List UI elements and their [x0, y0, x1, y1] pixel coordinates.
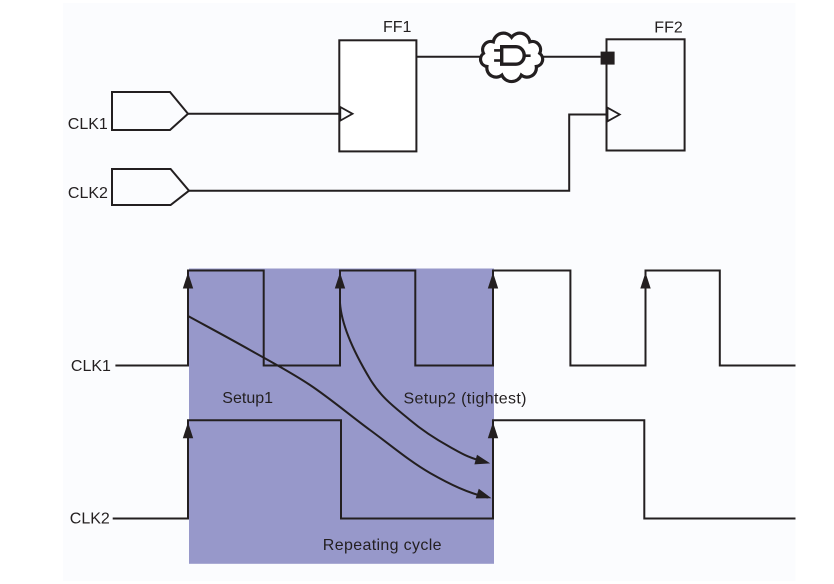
CLK2 waveform	[113, 420, 796, 518]
CLK2 rising edge arrow 2	[488, 422, 498, 438]
setup2 timing arc	[340, 303, 487, 463]
setup1 timing arc	[188, 316, 488, 498]
setup1 arrowhead	[476, 489, 493, 503]
CLK1 rising edge arrow 1	[183, 273, 193, 289]
CLK1 rising edge arrow 3	[488, 273, 498, 289]
FF2 clock pin triangle	[608, 108, 620, 122]
svg-text:FF2: FF2	[654, 20, 683, 37]
svg-text:CLK2: CLK2	[68, 185, 108, 202]
AND gate U1 inside cloud	[494, 47, 530, 64]
wire CLK1 pad to FF1 clock	[188, 113, 339, 115]
flip-flop FF2	[607, 39, 685, 150]
combinational logic cloud	[481, 33, 543, 81]
svg-text:Repeating cycle: Repeating cycle	[323, 537, 442, 554]
FF2 D input node (black square)	[601, 52, 615, 65]
CLK1 rising edge arrow 2	[335, 273, 345, 289]
repeating cycle shaded region	[189, 269, 494, 564]
svg-text:Setup2 (tightest): Setup2 (tightest)	[404, 391, 527, 408]
wire FF1 Q to FF2 D through logic cloud	[416, 56, 600, 58]
svg-text:Setup1: Setup1	[222, 390, 273, 407]
svg-text:FF1: FF1	[383, 19, 412, 36]
svg-text:CLK2: CLK2	[70, 511, 110, 528]
svg-text:CLK1: CLK1	[68, 116, 108, 133]
FF1 clock pin triangle	[340, 107, 352, 121]
flip-flop FF1	[339, 40, 416, 151]
clock source pad CLK1	[112, 92, 188, 130]
clock source pad CLK2	[112, 169, 189, 205]
CLK1 rising edge arrow 4	[640, 273, 650, 289]
CLK2 rising edge arrow 1	[183, 422, 193, 438]
svg-text:CLK1: CLK1	[71, 358, 111, 375]
CLK1 waveform	[115, 271, 795, 366]
setup2 arrowhead	[474, 455, 491, 469]
wire CLK2 pad to FF2 clock	[189, 115, 607, 191]
